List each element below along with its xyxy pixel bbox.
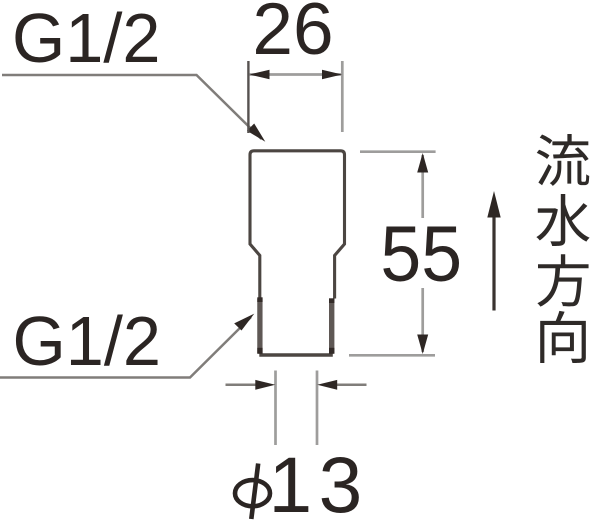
thread right bar	[329, 299, 334, 354]
thread left bar	[257, 299, 262, 354]
svg-text:G1/2: G1/2	[12, 0, 161, 77]
thread dark tip top-left	[257, 297, 262, 302]
arrowhead phi13 left	[255, 380, 275, 390]
leader line bottom G1/2	[0, 317, 251, 378]
extension line phi13 left	[274, 371, 277, 446]
kanji kou (toward)	[540, 311, 586, 363]
arrowhead 55 down	[417, 335, 428, 355]
arrowhead 55 up	[417, 153, 428, 173]
arrowhead phi13 right	[317, 380, 337, 390]
leader arrowhead top	[247, 124, 265, 142]
fitting body outline	[250, 151, 345, 299]
thread dark tip top-right	[329, 298, 334, 303]
dimension line 55 upper segment	[421, 155, 424, 218]
flow direction arrowhead	[487, 191, 500, 218]
extension line phi13 right	[316, 371, 319, 446]
phi symbol	[235, 464, 270, 520]
fitting bottom edge	[259, 353, 333, 356]
flow direction arrow shaft	[492, 216, 495, 311]
thread dark tip bottom-right	[329, 348, 334, 354]
kanji ryu (flow)	[537, 134, 589, 186]
kanji hou (direction)	[537, 254, 588, 306]
extension line 55 top	[360, 150, 436, 153]
dimension line 26	[250, 73, 343, 76]
leader line top G1/2	[2, 75, 262, 139]
svg-text:G1/2: G1/2	[13, 302, 162, 380]
svg-text:13: 13	[269, 441, 369, 523]
dimension line 55 lower segment	[421, 288, 424, 352]
arrowhead 26 right	[322, 70, 342, 80]
arrowhead 26 left	[250, 70, 270, 80]
extension line 26 left	[247, 61, 249, 133]
kanji sui (water)	[536, 194, 589, 246]
extension line 26 right	[341, 61, 344, 132]
leader arrowhead bottom	[234, 314, 254, 331]
svg-text:55: 55	[380, 210, 462, 298]
svg-text:26: 26	[252, 0, 333, 70]
dimension line phi13 right	[330, 384, 367, 387]
dimension line phi13 left	[226, 384, 263, 387]
extension line 55 bottom	[349, 354, 435, 357]
thread dark tip bottom-left	[257, 348, 262, 354]
